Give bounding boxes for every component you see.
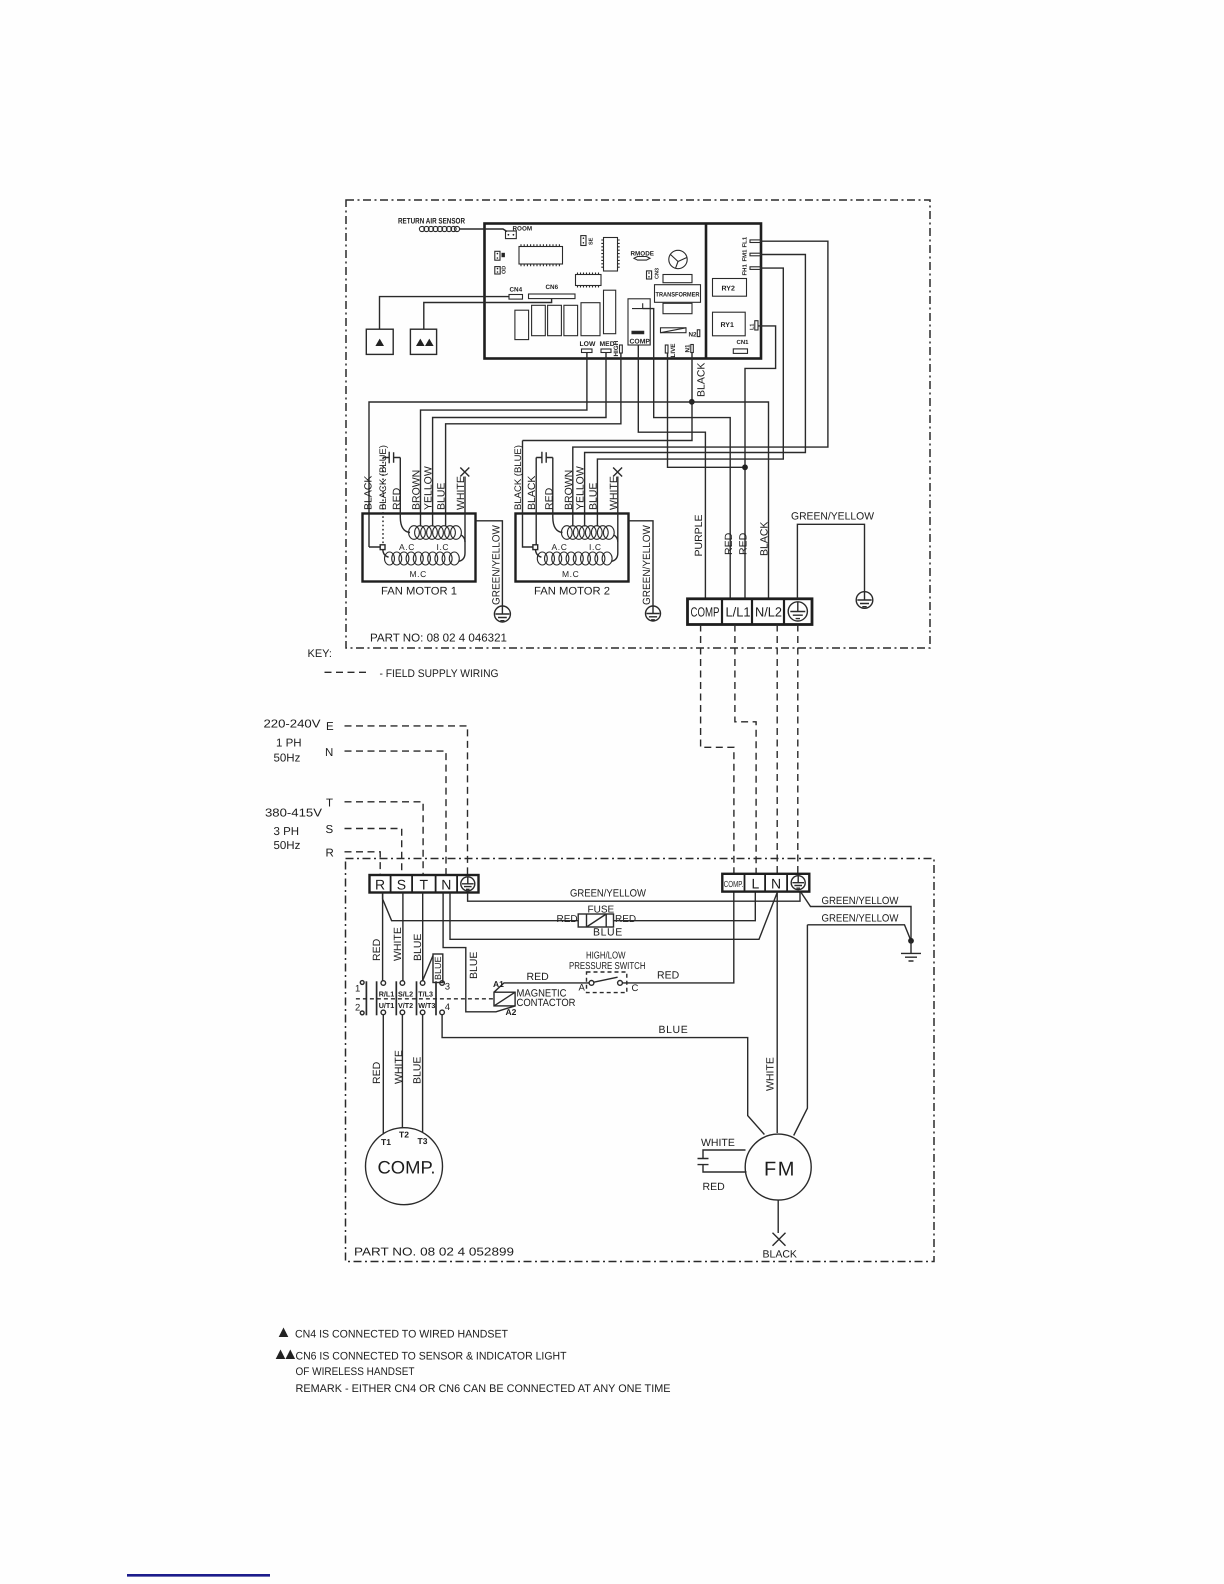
- relay K5: [581, 303, 600, 336]
- wire T to contactor T/L3 (BLUE): [422, 893, 424, 981]
- return air sensor coil: [419, 226, 459, 231]
- svg-text:WHITE: WHITE: [701, 1137, 735, 1149]
- svg-text:R/L1: R/L1: [379, 989, 395, 998]
- svg-text:GREEN/YELLOW: GREEN/YELLOW: [641, 525, 653, 605]
- svg-text:A.C: A.C: [399, 542, 415, 552]
- fan motor 2 WHITE wire with X: [611, 477, 618, 562]
- wire S to contactor S/L2 (WHITE): [402, 893, 404, 981]
- magnetic contactor poles: [377, 981, 436, 1015]
- earth junction node: [908, 938, 914, 944]
- IC U3 small DIP: [576, 273, 602, 288]
- svg-text:S: S: [326, 824, 334, 836]
- svg-text:R: R: [326, 847, 334, 859]
- FM capacitor C3: [698, 1150, 747, 1172]
- svg-text:CN4 IS CONNECTED TO WIRED HAND: CN4 IS CONNECTED TO WIRED HANDSET: [295, 1329, 508, 1341]
- fan motor 1 earth symbol: [494, 606, 510, 622]
- wire fuse to right terminal L: [614, 893, 756, 921]
- svg-text:BLUE: BLUE: [659, 1024, 689, 1036]
- wire E to right terminal earth (GREEN/YELLOW): [468, 892, 800, 902]
- connector J2: [495, 267, 500, 274]
- svg-text:COMP.: COMP.: [378, 1158, 436, 1178]
- svg-text:A2: A2: [506, 1007, 517, 1017]
- svg-text:C: C: [632, 983, 639, 994]
- green/yellow wire FM frame to earth electrode: [807, 925, 911, 941]
- field wiring dashed N: [776, 625, 778, 874]
- compressor motor COMP.: [366, 1128, 443, 1205]
- wire R to contactor R/L1 (RED): [382, 893, 384, 981]
- svg-text:CN6: CN6: [546, 284, 559, 291]
- fan motor 2 BLACK(BLUE) wire: [523, 441, 533, 548]
- svg-text:220-240V: 220-240V: [264, 719, 321, 731]
- field wiring dashed earth: [797, 625, 799, 874]
- svg-text:BLUE: BLUE: [468, 952, 480, 979]
- wire FM1 to fan motor 2 YELLOW: [585, 255, 806, 527]
- wire sensor to ROOM connector: [460, 229, 507, 232]
- svg-text:KEY:: KEY:: [308, 648, 332, 660]
- contactor aux contacts 1 2: [360, 981, 364, 985]
- svg-text:BLACK: BLACK: [363, 476, 375, 510]
- svg-text:GREEN/YELLOW: GREEN/YELLOW: [491, 525, 503, 605]
- contactor coil box: [494, 992, 515, 1006]
- outdoor unit dashed enclosure box: [346, 200, 930, 648]
- wire fan motor 1 BLACK to N/L2 terminal (BLACK): [369, 402, 769, 599]
- svg-text:HIGH: HIGH: [613, 340, 620, 356]
- wire N to contactor coil A2 (BLUE): [443, 893, 515, 1012]
- indoor unit terminal block COMP L N E: [722, 874, 809, 892]
- svg-text:CN6 IS CONNECTED TO SENSOR & I: CN6 IS CONNECTED TO SENSOR & INDICATOR L…: [296, 1351, 567, 1363]
- note CN6: [276, 1350, 286, 1360]
- svg-text:A1: A1: [493, 979, 504, 989]
- svg-text:FAN MOTOR 1: FAN MOTOR 1: [381, 586, 457, 598]
- fan motor 1 RED wire into A.C coil: [400, 458, 410, 533]
- fan motor 1 capacitor C1: [383, 452, 400, 463]
- svg-text:- FIELD SUPPLY WIRING: - FIELD SUPPLY WIRING: [380, 668, 499, 680]
- wire V/T2 to compressor (WHITE): [401, 1015, 403, 1128]
- jumper T/L3 to 3 with BLUE tag: [423, 956, 433, 981]
- relay K2: [532, 305, 546, 335]
- svg-text:GREEN/YELLOW: GREEN/YELLOW: [570, 888, 646, 900]
- wire L1 pin to L/L1 terminal (RED): [745, 326, 776, 599]
- svg-text:BLUE: BLUE: [593, 927, 623, 939]
- svg-text:M.C: M.C: [562, 569, 579, 579]
- svg-text:LOW: LOW: [580, 341, 596, 348]
- svg-text:BLUE: BLUE: [412, 934, 424, 961]
- svg-text:RED: RED: [723, 532, 735, 555]
- earth symbol right: [856, 592, 873, 609]
- svg-text:L: L: [752, 876, 760, 892]
- relay RY2: [713, 279, 747, 297]
- note CN4: [279, 1328, 289, 1338]
- svg-text:BROWN: BROWN: [563, 470, 575, 510]
- svg-text:YELLOW: YELLOW: [423, 466, 435, 510]
- green/yellow wire from terminal to earth: [797, 524, 864, 599]
- terminal earth: [791, 876, 805, 890]
- svg-text:1 PH: 1 PH: [276, 738, 302, 750]
- svg-text:A: A: [579, 983, 586, 994]
- wire COMP pin to COMP terminal (PURPLE): [638, 345, 705, 599]
- fan motor 1 terminal square: [380, 545, 385, 550]
- svg-text:380-415V: 380-415V: [265, 808, 322, 820]
- svg-text:PART NO: 08 02 4 046321: PART NO: 08 02 4 046321: [370, 633, 507, 645]
- svg-text:N: N: [325, 747, 333, 759]
- fan motor 1 green/yellow earth wire: [476, 521, 503, 606]
- wire HIGH to fan motor 1 BLUE: [446, 353, 621, 527]
- svg-text:RED: RED: [615, 914, 636, 925]
- svg-text:I.C: I.C: [437, 542, 450, 552]
- fan motor 1 WHITE wire with X: [459, 477, 466, 562]
- svg-text:CN1: CN1: [737, 339, 750, 346]
- svg-text:N: N: [771, 876, 781, 892]
- field wiring dashed COMP: [701, 625, 734, 874]
- wire compressor relay to L/L1 terminal (RED): [643, 309, 731, 599]
- svg-text:BROWN: BROWN: [411, 470, 423, 510]
- connector CN3: [647, 271, 652, 279]
- wire LIVE pin down to junction: [668, 353, 746, 467]
- relay RY1: [713, 312, 746, 336]
- wire CN4 to wired handset box: [380, 297, 510, 330]
- svg-text:COMP.: COMP.: [630, 339, 652, 346]
- wire contactor 4 to FM (BLUE): [442, 1015, 764, 1135]
- svg-text:BLACK: BLACK: [763, 1249, 797, 1261]
- svg-text:FM: FM: [764, 1159, 796, 1181]
- relay K3: [548, 305, 562, 335]
- svg-text:PART NO. 08 02 4 052899: PART NO. 08 02 4 052899: [354, 1247, 514, 1259]
- svg-text:RED: RED: [657, 970, 680, 982]
- svg-text:COMP.: COMP.: [724, 879, 744, 889]
- junction node LIVE/L1: [742, 464, 748, 470]
- svg-text:BLACK (BLUE): BLACK (BLUE): [378, 445, 389, 510]
- svg-text:RED: RED: [391, 487, 403, 510]
- connector J1: [495, 251, 500, 260]
- svg-text:YELLOW: YELLOW: [575, 466, 587, 510]
- svg-text:2: 2: [355, 1003, 360, 1014]
- svg-text:RED: RED: [703, 1181, 726, 1193]
- IC U2 vertical DIP: [601, 238, 619, 272]
- svg-text:T/L3: T/L3: [418, 989, 433, 998]
- svg-text:OD: OD: [502, 266, 508, 274]
- junction node BLACK: [689, 399, 695, 405]
- svg-text:T1: T1: [381, 1137, 391, 1147]
- fan motor 2 BLACK wire: [535, 458, 537, 545]
- svg-text:OF WIRELESS HANDSET: OF WIRELESS HANDSET: [296, 1366, 415, 1378]
- wire FL1 to fan motor 2 BROWN: [573, 241, 828, 526]
- svg-text:LIVE: LIVE: [670, 344, 677, 358]
- fan motor 1 A.C / I.C winding: [409, 526, 462, 540]
- fan motor 1 box: [363, 514, 476, 582]
- svg-text:HIGH/LOW: HIGH/LOW: [586, 951, 626, 962]
- wire U/T1 to compressor (RED): [382, 1015, 384, 1135]
- svg-text:WHITE: WHITE: [393, 1050, 405, 1084]
- outdoor terminal block: [688, 599, 813, 625]
- svg-text:50Hz: 50Hz: [274, 840, 301, 852]
- svg-text:BLUE: BLUE: [587, 483, 599, 510]
- svg-text:S: S: [397, 877, 406, 893]
- svg-text:N: N: [441, 877, 451, 893]
- svg-text:FM1: FM1: [742, 249, 749, 262]
- fan motor 2 green/yellow earth wire: [629, 521, 654, 606]
- svg-text:BLACK (BLUE): BLACK (BLUE): [513, 445, 524, 510]
- wire R to fuse: [383, 893, 579, 921]
- fan motor 2 RED wire into A.C coil: [553, 458, 563, 533]
- svg-text:N/L2: N/L2: [755, 605, 782, 620]
- relay K6: [604, 290, 616, 334]
- fuse F1: [578, 914, 613, 927]
- svg-text:T: T: [420, 877, 429, 893]
- svg-text:M.C: M.C: [410, 569, 427, 579]
- buzzer BZ1: [669, 250, 687, 268]
- svg-text:S/L2: S/L2: [398, 989, 413, 998]
- svg-text:WHITE: WHITE: [392, 927, 404, 961]
- indoor supply terminal block R S T N E: [370, 875, 479, 893]
- svg-text:REMARK - EITHER CN4 OR CN6 CAN: REMARK - EITHER CN4 OR CN6 CAN BE CONNEC…: [296, 1383, 671, 1395]
- contactor contacts bottom row: [381, 1010, 444, 1015]
- fan motor 1 BLACK(BLUE) dotted wire: [382, 458, 384, 545]
- coil A1 lead: [494, 983, 589, 992]
- relay K4: [564, 305, 578, 335]
- svg-text:1: 1: [355, 984, 360, 995]
- relay K1: [515, 310, 529, 339]
- wire N1 pin to fan motor 2 BLACK(BLUE): [523, 353, 693, 441]
- svg-text:WHITE: WHITE: [765, 1057, 777, 1091]
- svg-text:3 PH: 3 PH: [274, 826, 300, 838]
- svg-text:RED: RED: [371, 1061, 383, 1084]
- svg-text:CN4: CN4: [510, 287, 523, 294]
- svg-text:BLUE: BLUE: [436, 483, 448, 510]
- svg-text:ROOM: ROOM: [513, 226, 533, 233]
- fan motor 2 A.C / I.C winding: [561, 526, 614, 540]
- svg-text:FUSE: FUSE: [588, 905, 615, 916]
- wire W/T3 to compressor (BLUE): [422, 1015, 424, 1133]
- svg-text:CONTACTOR: CONTACTOR: [517, 997, 576, 1009]
- field wiring dashed L: [735, 625, 756, 874]
- transformer T1: [655, 275, 701, 314]
- wire LOW to fan motor 1 BROWN: [421, 353, 587, 527]
- fan motor 1 M.C winding: [385, 552, 460, 565]
- wire N to right terminal N (BLUE): [450, 893, 777, 940]
- contactor contacts top row: [381, 981, 444, 986]
- svg-text:I.C: I.C: [589, 542, 602, 552]
- svg-text:V/T2: V/T2: [398, 1001, 413, 1010]
- green/yellow wire terminal to earth electrode: [801, 892, 912, 941]
- svg-text:BLACK: BLACK: [526, 476, 538, 510]
- wire FM frame lead: [794, 925, 808, 1136]
- svg-text:L/L1: L/L1: [726, 605, 751, 620]
- svg-text:3: 3: [445, 982, 450, 993]
- wire MED to fan motor 1 YELLOW: [433, 353, 606, 527]
- fan motor 2 terminal square: [533, 545, 538, 550]
- svg-text:A.C: A.C: [552, 542, 568, 552]
- svg-text:FL1: FL1: [742, 236, 749, 247]
- indoor unit dashed enclosure box: [346, 859, 935, 1262]
- svg-text:RETURN AIR SENSOR: RETURN AIR SENSOR: [398, 217, 465, 226]
- wire CN6 to wireless handset box: [424, 299, 552, 330]
- svg-text:RED: RED: [738, 532, 750, 555]
- earth electrode symbol: [901, 941, 921, 961]
- wire FH1 to fan motor 2 BLUE: [597, 268, 783, 526]
- svg-text:BLACK: BLACK: [759, 522, 771, 556]
- svg-text:U/T1: U/T1: [379, 1001, 395, 1010]
- svg-text:CN3: CN3: [655, 268, 661, 279]
- compressor relay COMP.: [628, 299, 650, 345]
- svg-text:SE: SE: [589, 237, 595, 245]
- svg-text:W/T3: W/T3: [418, 1001, 435, 1010]
- svg-text:BLACK: BLACK: [696, 363, 708, 397]
- svg-text:N2: N2: [689, 332, 698, 339]
- svg-text:R: R: [375, 877, 385, 893]
- svg-text:WHITE: WHITE: [455, 476, 467, 510]
- svg-text:GREEN/YELLOW: GREEN/YELLOW: [791, 511, 874, 523]
- svg-text:COMP: COMP: [691, 605, 720, 620]
- PCB control board outline: [485, 224, 762, 359]
- ROOM connector: [506, 231, 517, 239]
- fan motor 2 earth symbol: [646, 606, 661, 621]
- IC U1 DIP package: [519, 244, 563, 266]
- svg-text:T2: T2: [399, 1130, 409, 1140]
- svg-text:RED: RED: [557, 914, 578, 925]
- svg-text:RED: RED: [371, 938, 383, 961]
- svg-text:RY2: RY2: [722, 286, 735, 293]
- svg-text:T: T: [326, 798, 333, 810]
- svg-text:FH1: FH1: [742, 264, 749, 276]
- fan motor 2 box: [516, 514, 629, 582]
- svg-text:PRESSURE SWITCH: PRESSURE SWITCH: [569, 961, 646, 972]
- terminal earth: [461, 877, 475, 891]
- fan motor FM: [745, 1134, 811, 1200]
- contactor linkage dashed: [356, 998, 494, 1000]
- fan motor 2 M.C winding: [537, 552, 612, 565]
- varistor N2: [661, 328, 687, 333]
- svg-text:50Hz: 50Hz: [274, 753, 301, 765]
- fan motor 2 capacitor C2: [536, 452, 553, 463]
- svg-text:BLUE: BLUE: [433, 956, 443, 980]
- svg-text:4: 4: [445, 1002, 450, 1013]
- svg-text:BLUE: BLUE: [412, 1057, 424, 1084]
- svg-text:RY1: RY1: [721, 322, 734, 329]
- svg-text:RED: RED: [544, 487, 556, 510]
- terminal earth symbol: [788, 602, 807, 621]
- svg-text:PURPLE: PURPLE: [693, 514, 705, 556]
- wire FM to BLACK open end: [777, 1200, 779, 1233]
- svg-text:E: E: [326, 721, 334, 733]
- wireless handset box (double triangle): [410, 329, 436, 354]
- svg-text:WHITE: WHITE: [608, 476, 620, 510]
- connector J3: [581, 236, 586, 246]
- wired handset box (triangle): [366, 329, 393, 354]
- wire N terminal to FM (WHITE): [776, 892, 778, 1133]
- svg-text:GREEN/YELLOW: GREEN/YELLOW: [822, 913, 899, 925]
- PCB divider line: [705, 224, 708, 359]
- svg-text:TRANSFORMER: TRANSFORMER: [656, 292, 700, 299]
- svg-text:GREEN/YELLOW: GREEN/YELLOW: [822, 895, 899, 907]
- footer blue rule: [127, 1574, 270, 1577]
- svg-text:T3: T3: [418, 1136, 428, 1146]
- svg-text:RED: RED: [527, 971, 550, 983]
- wire pressure switch to COMP terminal (RED): [622, 893, 733, 983]
- svg-text:FAN MOTOR 2: FAN MOTOR 2: [534, 586, 610, 598]
